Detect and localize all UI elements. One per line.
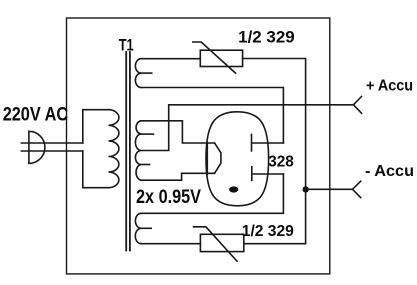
mains plug P1	[29, 131, 45, 163]
svg-text:1/2 329: 1/2 329	[238, 28, 295, 47]
wire S2 center tap to + Accu	[141, 105, 354, 151]
svg-text:- Accu: - Accu	[365, 163, 414, 180]
rectifier tube 328 envelope	[206, 112, 269, 206]
svg-text:220V AC: 220V AC	[3, 105, 69, 126]
svg-text:1/2 329: 1/2 329	[242, 223, 294, 240]
svg-text:+ Accu: + Accu	[366, 78, 413, 95]
wire S2 bottom to filament bottom	[141, 173, 215, 180]
wire S1 top to varistor R1	[141, 58, 200, 60]
wire bottom anode to S3 top	[141, 174, 283, 213]
varistor R2	[200, 234, 243, 251]
S2 stub upper	[141, 133, 153, 135]
connector + Accu	[354, 97, 362, 114]
svg-text:2x 0.95V: 2x 0.95V	[136, 187, 201, 208]
enclosure box	[67, 18, 330, 274]
secondary winding S2 (middle heater windings)	[135, 121, 141, 180]
wire S3 bottom to varistor R2	[141, 243, 200, 245]
varistor R1 diagonal	[193, 42, 236, 73]
secondary winding S3 (bottom)	[135, 213, 141, 243]
svg-text:328: 328	[268, 154, 294, 171]
wire S1 bottom to tube top anode	[141, 88, 283, 144]
transformer T1 primary winding	[83, 110, 109, 188]
S3 middle stub	[141, 227, 151, 229]
tube gas dot	[229, 186, 238, 192]
wire S2 top to filament top	[141, 121, 215, 143]
wire plug pin bottom	[21, 150, 82, 152]
tube filament	[207, 142, 221, 174]
junction node dot	[303, 186, 309, 192]
connector - Accu	[353, 181, 361, 197]
tube anode bottom	[252, 167, 284, 181]
svg-text:T1: T1	[119, 36, 134, 54]
varistor R2 diagonal	[194, 227, 238, 261]
transformer core	[126, 52, 130, 251]
wire plug pin top	[21, 142, 82, 144]
wire to - Accu	[306, 188, 353, 190]
wire R1 right to bus, down, to R2 right	[243, 59, 306, 244]
S2 stub lower	[141, 164, 150, 166]
S1 middle stub	[141, 72, 152, 74]
varistor R1	[200, 50, 242, 66]
tube anode top	[252, 134, 284, 151]
secondary winding S1 (top)	[135, 59, 141, 88]
